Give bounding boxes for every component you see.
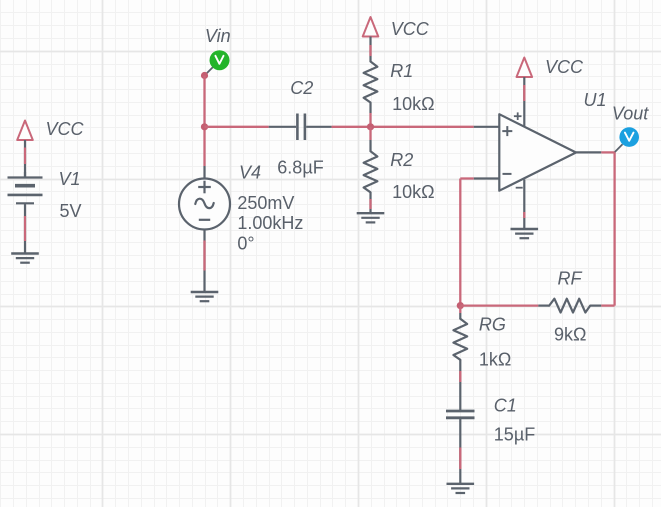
power symbol VCC (V1) (17, 121, 33, 141)
svg-text:RF: RF (558, 269, 583, 289)
wire node to R2 (369, 127, 371, 152)
wire inverting input (460, 179, 473, 306)
wire VCC to R1 (369, 37, 371, 62)
label C1 (494, 396, 517, 416)
label VCC (U1) (545, 57, 584, 77)
value 9kΩ (554, 325, 586, 345)
capacitor C1 (446, 411, 475, 418)
junction feedback node (457, 302, 464, 309)
wire RG to C1 (459, 360, 461, 410)
node Vin dot (201, 72, 208, 79)
wire U1 negative supply (523, 180, 525, 230)
svg-text:1kΩ: 1kΩ (479, 350, 511, 370)
svg-text:6.8µF: 6.8µF (277, 158, 323, 178)
label V1 (59, 169, 81, 189)
svg-text:VCC: VCC (545, 57, 584, 77)
svg-text:V1: V1 (59, 169, 81, 189)
value 0° (237, 234, 254, 254)
wire V1 bottom stem (24, 203, 26, 253)
power symbol VCC (R1) (363, 17, 379, 37)
wire Vin vertical (203, 76, 205, 167)
wire input to C2 (205, 126, 269, 128)
value 15µF (494, 425, 535, 445)
wire C1 to ground (459, 418, 461, 484)
wire RF to output (601, 304, 614, 306)
svg-text:5V: 5V (60, 201, 82, 221)
wire VCC to U1 (523, 77, 525, 126)
op-amp U1 (474, 112, 602, 190)
wire output corner (601, 152, 614, 305)
ground (V1) (11, 254, 39, 263)
junction divider node (367, 123, 374, 130)
value 10kΩ (R1) (392, 94, 434, 114)
label U1 (584, 90, 607, 110)
svg-text:R2: R2 (390, 150, 413, 170)
net label Vin (205, 26, 231, 46)
resistor R2 (364, 151, 378, 192)
probe Vout (619, 127, 639, 147)
resistor RF (538, 299, 601, 313)
probe Vout tail (615, 144, 623, 152)
resistor RG (453, 319, 467, 360)
junction input node (201, 123, 208, 130)
label VCC (R1) (391, 19, 430, 39)
wire R2 to ground (369, 192, 371, 213)
svg-text:C2: C2 (290, 78, 313, 98)
probe Vin (210, 50, 230, 70)
svg-text:V4: V4 (239, 163, 261, 183)
svg-text:Vin: Vin (205, 26, 231, 46)
value 6.8µF (277, 158, 323, 178)
label V4 (239, 163, 261, 183)
wire V4 to ground (203, 230, 205, 293)
ground (C1) (447, 484, 475, 493)
capacitor C2 (269, 114, 332, 141)
ground (U1) (511, 229, 539, 238)
battery V1 (8, 172, 43, 203)
svg-text:U1: U1 (584, 90, 607, 110)
label RF (558, 269, 583, 289)
net label Vout (612, 104, 649, 124)
wire node to RF (460, 304, 538, 306)
label VCC (V1) (46, 119, 85, 139)
svg-text:C1: C1 (494, 396, 517, 416)
svg-text:250mV: 250mV (237, 193, 294, 213)
svg-text:Vout: Vout (612, 104, 649, 124)
value 5V (60, 201, 82, 221)
svg-text:VCC: VCC (46, 119, 85, 139)
source V4 (179, 166, 230, 230)
value 10kΩ (R2) (392, 182, 434, 202)
label C2 (290, 78, 313, 98)
svg-text:1.00kHz: 1.00kHz (237, 213, 303, 233)
value 250mV (237, 193, 294, 213)
label R2 (390, 150, 413, 170)
ground (R2) (357, 213, 385, 222)
wire R1 to node (369, 103, 371, 127)
value 1kΩ (479, 350, 511, 370)
svg-text:RG: RG (479, 315, 506, 335)
resistor R1 (364, 62, 378, 103)
power symbol VCC (U1) (517, 58, 533, 78)
svg-text:VCC: VCC (391, 19, 430, 39)
wire V1 top stem (24, 140, 26, 178)
svg-text:0°: 0° (237, 234, 254, 254)
svg-text:10kΩ: 10kΩ (392, 94, 434, 114)
svg-text:9kΩ: 9kΩ (554, 325, 586, 345)
label RG (479, 315, 506, 335)
wire node to RG (459, 306, 461, 319)
svg-text:15µF: 15µF (494, 425, 535, 445)
wire C2 to divider node (332, 126, 474, 128)
svg-text:R1: R1 (390, 61, 413, 81)
ground (V4) (191, 292, 219, 301)
value 1.00kHz (237, 213, 303, 233)
label R1 (390, 61, 413, 81)
probe Vin tail (205, 66, 215, 76)
svg-text:10kΩ: 10kΩ (392, 182, 434, 202)
